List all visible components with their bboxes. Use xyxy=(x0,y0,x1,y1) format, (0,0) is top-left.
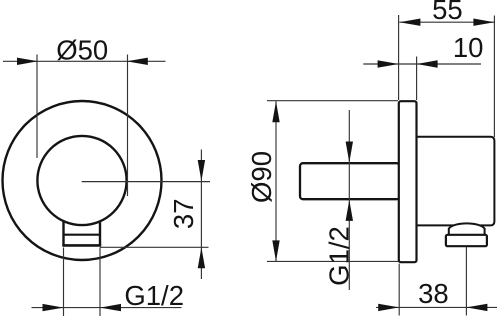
side view: pipe stub xyxy=(300,163,400,199)
dim Ø90: top extension line xyxy=(267,100,398,102)
dim Ø50: extension line right xyxy=(127,55,129,197)
front view: outer wall ring circle xyxy=(3,101,162,260)
svg-text:G1/2: G1/2 xyxy=(124,280,184,311)
side view: outlet dome xyxy=(449,223,485,236)
dim Ø90: top arrow xyxy=(272,101,279,122)
dim G1/2 front: right arrow xyxy=(100,304,121,311)
dim 37: bottom extension line xyxy=(100,246,209,248)
dim 38: left arrow xyxy=(378,304,399,311)
dim G1/2 side: top arrow xyxy=(346,142,353,163)
dim Ø90: bottom extension line xyxy=(267,260,398,262)
side view: wall plate xyxy=(399,101,417,262)
dim 37: top arrow xyxy=(198,160,205,181)
svg-text:37: 37 xyxy=(168,199,199,230)
dim 37: dimension line xyxy=(200,150,202,280)
svg-text:Ø50: Ø50 xyxy=(56,34,108,65)
svg-text:38: 38 xyxy=(418,278,449,309)
dim 10: left arrow xyxy=(378,60,399,67)
dim 10: dimension line xyxy=(363,63,481,65)
dim G1/2 front: dimension line xyxy=(32,307,182,309)
svg-text:10: 10 xyxy=(453,32,484,63)
front view: horizontal center line xyxy=(82,181,210,183)
dim 38: left extension line xyxy=(398,264,400,316)
dim 10: right arrow xyxy=(417,60,438,67)
dim 55: right arrow xyxy=(473,19,494,26)
dim Ø90: dimension line xyxy=(275,101,277,261)
dim G1/2 side: bottom arrow xyxy=(346,200,353,221)
dim 10: right extension line xyxy=(416,57,418,101)
front view: inner dome circle xyxy=(37,136,126,225)
dim G1/2 side: vertical center line xyxy=(348,110,350,290)
svg-text:Ø90: Ø90 xyxy=(246,151,277,203)
dim 38: right extension line (outlet axis) xyxy=(465,247,467,316)
dim Ø50: extension line left xyxy=(36,55,38,159)
dim 55: left arrow xyxy=(399,19,420,26)
side view: outlet nut xyxy=(446,235,487,246)
dim 38: right arrow xyxy=(466,304,487,311)
svg-text:55: 55 xyxy=(432,0,463,25)
svg-text:G1/2: G1/2 xyxy=(323,226,354,286)
dim 55: right extension line xyxy=(493,16,495,138)
dim Ø50: left arrow xyxy=(17,58,38,65)
dim Ø90: bottom arrow xyxy=(272,240,279,261)
dim 55: left extension line xyxy=(398,15,400,100)
dim 38: dimension line xyxy=(376,306,497,308)
dim Ø50: right arrow xyxy=(127,58,148,65)
dim G1/2 front: extension line left xyxy=(63,248,65,317)
front view: hose connector box xyxy=(62,222,101,246)
dim G1/2 front: extension line right xyxy=(99,248,101,317)
dim G1/2 front: left arrow xyxy=(43,304,64,311)
dim 55: dimension line xyxy=(399,21,494,23)
dim 37: bottom arrow xyxy=(198,247,205,268)
dim Ø50: dimension line xyxy=(3,60,166,62)
side view: body housing xyxy=(417,137,495,226)
